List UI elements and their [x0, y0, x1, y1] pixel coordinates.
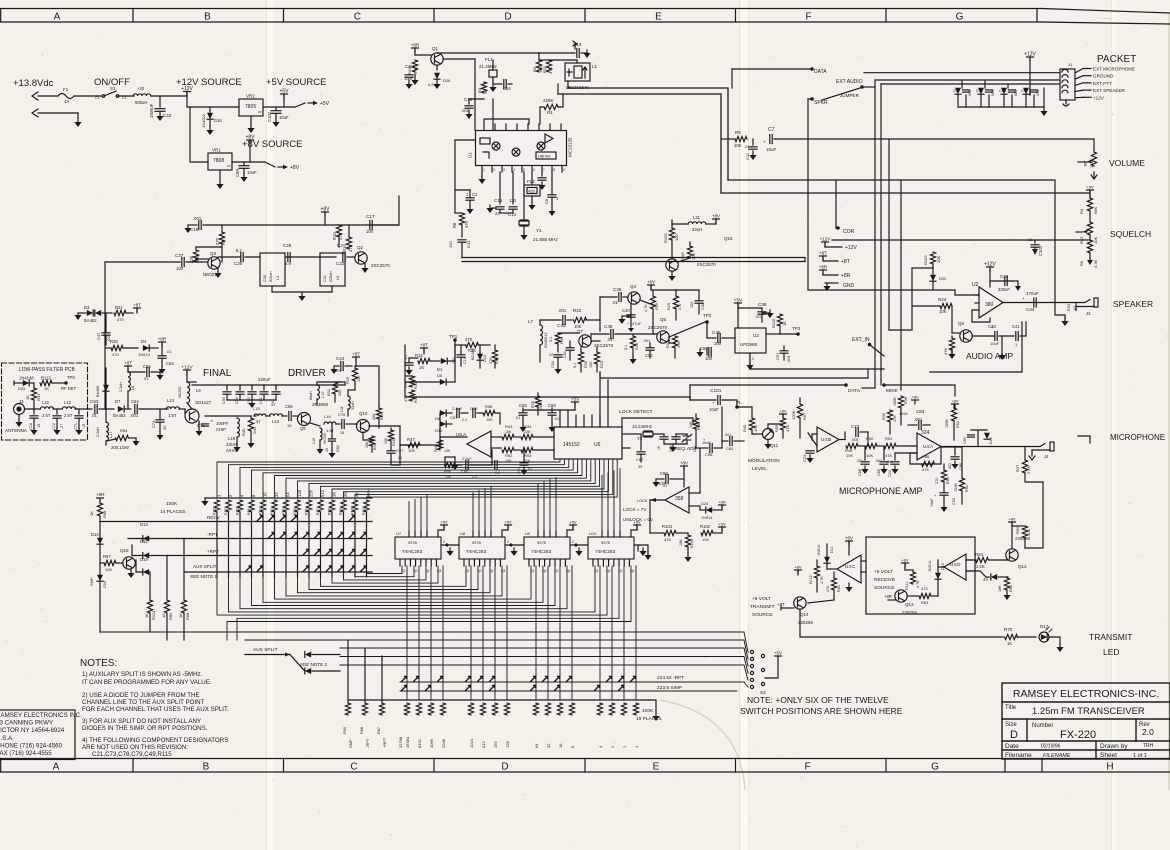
svg-text:D24: D24 [701, 501, 709, 506]
svg-text:128: 128 [297, 489, 302, 497]
svg-text:Filename: Filename [1005, 752, 1032, 759]
svg-text:L10: L10 [321, 392, 325, 398]
capacitor C42 1500uF [159, 96, 161, 107]
svg-text:10K: 10K [384, 437, 388, 444]
svg-text:.01: .01 [612, 300, 618, 305]
svg-text:1.5T: 1.5T [168, 413, 177, 418]
svg-text:128: 128 [505, 741, 510, 748]
inductor L9 [187, 382, 190, 403]
svg-text:9978: 9978 [408, 540, 418, 545]
ext_in switch diagonal [870, 345, 884, 356]
svg-text:.001: .001 [643, 339, 650, 343]
svg-text:VICTOR NY 14564-8924: VICTOR NY 14564-8924 [0, 727, 65, 734]
svg-text:Date: Date [1005, 743, 1019, 750]
svg-text:100: 100 [366, 229, 374, 234]
U1 left step wire [455, 140, 476, 190]
svg-text:R63: R63 [921, 600, 929, 605]
svg-text:R39: R39 [882, 413, 886, 420]
svg-text:C34: C34 [1026, 307, 1035, 312]
svg-text:100K: 100K [166, 501, 178, 507]
svg-text:SWITCH POSITIONS ARE SHOWN HER: SWITCH POSITIONS ARE SHOWN HERE [740, 706, 903, 716]
svg-text:R4: R4 [1079, 208, 1084, 214]
svg-text:F: F [804, 762, 810, 773]
wire Q5 to TP2 [669, 322, 705, 337]
svg-text:LOCK = 7V: LOCK = 7V [623, 507, 647, 512]
resistor R63 470 [919, 593, 931, 598]
svg-text:10K: 10K [679, 539, 683, 546]
svg-text:R5: R5 [735, 130, 741, 135]
svg-text:.01: .01 [143, 376, 149, 381]
audio section box wires [930, 322, 1022, 372]
svg-text:B: B [204, 12, 211, 23]
svg-text:D25: D25 [18, 386, 26, 391]
scan arc mark bottom center [660, 700, 745, 790]
zener D26 6.2V [434, 73, 440, 79]
svg-text:10K: 10K [486, 418, 493, 422]
svg-text:+5V: +5V [440, 520, 448, 525]
wire Q1 collector right [443, 58, 475, 60]
svg-text:R21: R21 [115, 305, 123, 310]
svg-text:.01: .01 [166, 349, 172, 354]
svg-text:LOCK DETECT: LOCK DETECT [619, 409, 653, 415]
switch row lines [100, 631, 737, 633]
svg-text:SQUELCH: SQUELCH [1110, 229, 1151, 239]
svg-text:RECV: RECV [207, 515, 221, 520]
svg-text:EXT SPEAKER: EXT SPEAKER [1093, 88, 1126, 93]
svg-text:6|4: 6|4 [566, 569, 571, 573]
cap C51 C54 at Q7 [566, 347, 574, 349]
svg-text:02/19/96: 02/19/96 [1041, 744, 1061, 750]
svg-text:+8 VOLT: +8 VOLT [874, 569, 893, 575]
svg-text:L16: L16 [324, 414, 331, 419]
svg-text:1.25m FM TRANSCEIVER: 1.25m FM TRANSCEIVER [1032, 706, 1145, 717]
svg-text:Q15: Q15 [120, 548, 129, 553]
IC U7 74HC283 [395, 537, 441, 559]
svg-text:47K: 47K [943, 348, 948, 355]
svg-text:2: 2 [493, 168, 495, 172]
U1 pin wires top [484, 119, 529, 124]
svg-text:9046512: 9046512 [543, 332, 548, 348]
svg-text:145152: 145152 [563, 442, 580, 448]
svg-text:6: 6 [533, 168, 535, 172]
svg-text:2SC2570: 2SC2570 [648, 325, 668, 330]
svg-text:100: 100 [589, 362, 593, 368]
svg-text:2SC2570: 2SC2570 [371, 263, 390, 268]
svg-text:VR1: VR1 [212, 148, 221, 153]
svg-text:10K: 10K [408, 448, 415, 453]
svg-text:2|1: 2|1 [401, 569, 406, 573]
svg-text:C88: C88 [858, 469, 862, 476]
svg-text:R26: R26 [635, 343, 639, 350]
svg-text:2.0: 2.0 [1142, 727, 1154, 737]
svg-text:324: 324 [921, 430, 930, 436]
diode D1 1N914 [441, 358, 447, 364]
svg-text:9978: 9978 [472, 540, 482, 545]
long mid bus y258 [462, 257, 805, 259]
U5B output [650, 499, 665, 501]
svg-text:1N914: 1N914 [701, 516, 712, 520]
svg-text:7: 7 [543, 168, 545, 172]
svg-text:D13: D13 [140, 522, 148, 527]
capacitor C11 .01 [752, 139, 754, 145]
svg-text:C82: C82 [336, 445, 340, 452]
svg-text:EXT_IN: EXT_IN [852, 337, 870, 343]
transistor Q13 228256 [895, 590, 907, 602]
svg-text:15: 15 [37, 424, 41, 428]
transistor Q12 228256 [1006, 549, 1018, 561]
svg-text:TRANSMIT: TRANSMIT [1089, 632, 1132, 642]
filter main line [25, 408, 41, 410]
U1 internal triangle [545, 134, 553, 143]
svg-text:C1: C1 [953, 89, 958, 93]
svg-text:LOCK: LOCK [637, 499, 648, 503]
svg-text:3|2: 3|2 [489, 569, 494, 573]
svg-text:R6: R6 [1079, 260, 1084, 266]
svg-text:BA482: BA482 [84, 318, 97, 323]
svg-text:C22: C22 [336, 261, 345, 266]
svg-text:+RPT: +RPT [382, 737, 387, 748]
svg-text:A: A [53, 762, 60, 773]
svg-text:380: 380 [985, 302, 994, 308]
svg-text:4096: 4096 [429, 738, 434, 748]
svg-text:15: 15 [340, 431, 344, 435]
svg-text:C96: C96 [705, 452, 713, 457]
cap C50 100 [706, 348, 708, 355]
svg-text:6|4: 6|4 [501, 569, 506, 573]
svg-text:470: 470 [826, 586, 830, 592]
IC U9 74HC283 [524, 537, 570, 559]
svg-text:U9: U9 [525, 531, 531, 536]
diode D12 1N914 [935, 573, 941, 579]
bottom bus wires center [600, 372, 868, 378]
wire rail corner up at x399 [374, 196, 399, 225]
svg-text:47uF: 47uF [632, 321, 642, 326]
transistor Q14 228256 [794, 597, 806, 609]
svg-text:358: 358 [675, 496, 684, 502]
connector J1 [1060, 69, 1075, 100]
svg-text:R70: R70 [1004, 627, 1013, 632]
diode on aux split bottom [305, 652, 311, 658]
svg-text:L15: L15 [253, 406, 260, 411]
svg-text:47K: 47K [893, 415, 897, 422]
svg-text:2.2K: 2.2K [976, 564, 985, 569]
svg-text:1) AUXILARY SPLIT IS SHOWN AS: 1) AUXILARY SPLIT IS SHOWN AS -5MHz. [82, 671, 203, 678]
svg-text:C3: C3 [999, 89, 1004, 93]
op amp U4:D [944, 554, 966, 580]
svg-text:1N914: 1N914 [928, 561, 932, 572]
ground at U8 [513, 548, 515, 551]
svg-text:R96: R96 [305, 508, 309, 515]
svg-text:228256: 228256 [902, 610, 918, 615]
svg-text:+8R: +8R [841, 273, 851, 279]
svg-text:U7: U7 [396, 531, 402, 536]
crystal Y1 21.855 MHz [520, 219, 528, 221]
svg-text:+8R: +8R [884, 594, 892, 599]
svg-text:512: 512 [320, 489, 325, 497]
svg-text:C1: C1 [472, 192, 478, 197]
packet bus wires [864, 72, 1060, 74]
svg-text:C11: C11 [745, 152, 750, 160]
svg-text:R55: R55 [444, 470, 451, 474]
svg-text:R59: R59 [774, 424, 779, 432]
svg-text:100: 100 [705, 356, 713, 361]
svg-text:.001: .001 [558, 308, 567, 313]
svg-text:TP3: TP3 [792, 326, 801, 331]
legend GND [825, 282, 838, 284]
svg-text:C31: C31 [323, 275, 327, 282]
svg-text:R32: R32 [327, 389, 331, 396]
svg-text:C74: C74 [151, 420, 156, 428]
svg-text:Q12: Q12 [1018, 564, 1027, 569]
svg-text:500uH: 500uH [135, 100, 147, 105]
packet fanout lines [1075, 69, 1083, 74]
svg-text:.01: .01 [515, 416, 520, 420]
svg-text:D: D [504, 12, 511, 23]
svg-text:R98: R98 [328, 508, 332, 515]
svg-text:2|1: 2|1 [530, 569, 535, 573]
svg-text:Q2: Q2 [357, 245, 364, 250]
svg-text:7805: 7805 [245, 104, 256, 110]
svg-text:5: 5 [523, 168, 525, 172]
svg-text:E: E [655, 12, 662, 23]
svg-text:TP1: TP1 [449, 334, 458, 339]
svg-text:2|1: 2|1 [465, 569, 470, 573]
voltage regulator VR1 7808 [208, 153, 232, 170]
aux split lower rail [99, 631, 101, 633]
svg-text:2N3866: 2N3866 [312, 402, 329, 407]
svg-text:8.2: 8.2 [236, 248, 242, 253]
U6 right pins [622, 433, 630, 435]
wire down to VR1 branch [190, 107, 208, 162]
svg-text:R28: R28 [110, 339, 118, 344]
svg-text:SOURCE: SOURCE [752, 612, 773, 618]
svg-text:8: 8 [553, 168, 555, 172]
diode D27 at U4D [991, 574, 997, 580]
svg-text:EXT MICROPHONE: EXT MICROPHONE [1093, 67, 1135, 72]
svg-text:+8V SOURCE: +8V SOURCE [242, 139, 302, 150]
bottom array 16 resistors [404, 703, 409, 715]
svg-text:SOURCE: SOURCE [874, 585, 895, 591]
bottom array bus [348, 699, 648, 701]
long bus wire upper y88 [568, 88, 728, 180]
svg-text:93 CANNING PKWY: 93 CANNING PKWY [0, 720, 53, 727]
svg-text:C54: C54 [551, 361, 555, 368]
svg-text:R38: R38 [904, 397, 908, 404]
svg-text:7808: 7808 [213, 158, 224, 164]
svg-text:B: B [203, 762, 210, 773]
cap C97 .01 [387, 450, 395, 452]
svg-text:G: G [956, 12, 964, 23]
svg-text:21.4MHz: 21.4MHz [479, 64, 498, 69]
svg-text:U6: U6 [594, 442, 601, 448]
svg-text:C83: C83 [916, 409, 925, 414]
input connector chevrons [32, 92, 38, 117]
svg-text:+13.8Vdc: +13.8Vdc [13, 78, 54, 89]
packet ground [1043, 88, 1045, 107]
svg-text:2048: 2048 [441, 738, 446, 748]
svg-text:100K: 100K [945, 419, 949, 428]
svg-text:47K: 47K [664, 537, 671, 542]
svg-text:+8V: +8V [845, 536, 853, 541]
svg-text:+8V: +8V [779, 409, 787, 414]
low-pass filter dashed box [2, 363, 88, 440]
svg-text:R94: R94 [282, 508, 286, 515]
ground under U5A [454, 462, 456, 465]
svg-text:10uF: 10uF [279, 115, 289, 120]
svg-text:R11: R11 [542, 65, 547, 73]
svg-text:S1: S1 [110, 86, 116, 91]
svg-text:C76: C76 [338, 412, 346, 417]
svg-text:+12V: +12V [845, 245, 857, 251]
svg-text:Drawn by: Drawn by [1100, 743, 1128, 750]
wire to modulation PL [721, 407, 723, 448]
svg-text:S2: S2 [760, 690, 766, 695]
svg-text:R67: R67 [103, 554, 111, 559]
svg-text:47K: 47K [785, 425, 790, 432]
svg-text:100K: 100K [791, 410, 796, 420]
svg-text:C: C [354, 12, 361, 23]
svg-text:C15: C15 [494, 198, 503, 203]
svg-text:CHIP: CHIP [216, 427, 226, 432]
svg-text:32: 32 [546, 743, 551, 748]
carry wire U8 to U9 [505, 544, 523, 546]
svg-text:DIODES IN THE SIMP. OR RPT POS: DIODES IN THE SIMP. OR RPT POSITIONS. [82, 725, 208, 732]
svg-text:2|0: 2|0 [413, 569, 418, 573]
ground under VR1 [219, 170, 221, 180]
svg-text:PL: PL [736, 400, 742, 405]
svg-text:1K: 1K [25, 395, 30, 400]
svg-text:C69: C69 [548, 403, 556, 408]
svg-text:R62: R62 [1009, 585, 1013, 592]
svg-text:C43: C43 [557, 323, 566, 328]
svg-text:C57: C57 [775, 352, 780, 360]
svg-text:DATA: DATA [814, 69, 827, 75]
svg-text:.001: .001 [948, 463, 952, 470]
svg-text:3.3K: 3.3K [1093, 259, 1098, 268]
wire U2 output to speaker [1003, 302, 1085, 304]
svg-text:2.5T: 2.5T [64, 413, 73, 418]
svg-text:C32: C32 [701, 303, 705, 310]
svg-text:R92: R92 [259, 508, 263, 515]
wire VR1 output [232, 161, 265, 163]
svg-text:.001: .001 [856, 459, 863, 463]
inductor L10 86uH at driver [317, 385, 319, 399]
svg-text:47K: 47K [922, 467, 929, 472]
svg-text:FAX (716) 924-4555: FAX (716) 924-4555 [0, 750, 52, 757]
svg-text:5.1: 5.1 [624, 345, 628, 350]
svg-text:10uF: 10uF [930, 498, 934, 507]
cap C82 20 vertical [329, 438, 336, 440]
svg-text:C67: C67 [450, 415, 458, 420]
svg-text:EXT AUDIO: EXT AUDIO [836, 79, 863, 85]
svg-text:C33: C33 [466, 240, 471, 248]
svg-text:PACKET: PACKET [1097, 54, 1136, 65]
svg-text:LEVEL: LEVEL [752, 466, 767, 472]
svg-text:C46: C46 [712, 330, 721, 335]
SPKR vertical wire [808, 99, 955, 290]
ground at U7 [449, 548, 451, 551]
svg-text:L14: L14 [272, 419, 280, 424]
switch contacts S2 [750, 650, 753, 653]
svg-text:D23: D23 [483, 355, 487, 362]
svg-text:R88: R88 [360, 727, 364, 734]
svg-text:Q8: Q8 [300, 426, 306, 431]
svg-text:200: 200 [338, 390, 342, 396]
svg-text:R15: R15 [415, 353, 423, 358]
U5A input resistors R52 R53 lower [491, 447, 501, 449]
svg-text:R20: R20 [667, 303, 671, 310]
svg-text:NOTES:: NOTES: [80, 658, 117, 669]
svg-text:U8: U8 [460, 531, 466, 536]
caps C59 C60 trimmer C81 [660, 436, 668, 438]
svg-text:.001: .001 [968, 90, 972, 97]
svg-text:+8R: +8R [819, 265, 828, 270]
volume feed wire [774, 139, 1094, 152]
svg-text:22K: 22K [524, 430, 531, 434]
svg-text:AUX SPLIT: AUX SPLIT [193, 564, 217, 569]
U6 top pins [559, 410, 561, 427]
svg-text:COR: COR [843, 229, 855, 235]
svg-text:Q3: Q3 [210, 251, 217, 256]
svg-text:100: 100 [357, 376, 361, 382]
svg-text:2.2uH: 2.2uH [119, 382, 123, 392]
wire Q14 emitter bottom rail [800, 609, 1003, 637]
svg-text:R89: R89 [168, 612, 173, 620]
svg-text:ov: ov [227, 164, 231, 168]
ground left of C18 [187, 225, 189, 228]
svg-text:R105: R105 [663, 233, 668, 243]
svg-text:+5V: +5V [1086, 185, 1094, 190]
svg-text:R54: R54 [120, 428, 128, 433]
svg-text:R117: R117 [224, 507, 228, 515]
svg-text:H: H [1106, 762, 1113, 773]
svg-text:+8V: +8V [951, 399, 959, 404]
svg-text:+8V: +8V [794, 565, 802, 570]
svg-text:1K: 1K [419, 365, 424, 370]
svg-text:R55: R55 [946, 477, 950, 484]
svg-text:2.2uF: 2.2uF [452, 406, 463, 411]
svg-text:C93: C93 [952, 498, 956, 505]
svg-text:TP2: TP2 [703, 313, 712, 318]
svg-text:D19: D19 [140, 557, 148, 562]
svg-text:R68: R68 [102, 510, 107, 518]
svg-text:+8R: +8R [411, 43, 420, 48]
svg-text:Q16: Q16 [724, 236, 733, 241]
ground under tuned circuits [271, 286, 273, 292]
bottom array left group R90 R88 R87 [345, 703, 350, 715]
svg-text:74HC283: 74HC283 [402, 549, 423, 555]
svg-text:NE021: NE021 [203, 272, 217, 277]
svg-text:R45: R45 [742, 424, 747, 432]
svg-text:Title: Title [1005, 705, 1017, 711]
svg-text:C44: C44 [336, 356, 345, 361]
svg-text:D: D [1010, 729, 1018, 741]
svg-text:D28: D28 [989, 437, 993, 444]
bus bundle U6 to ladder [217, 459, 560, 498]
wire from Q16 down [671, 220, 673, 224]
svg-text:C19: C19 [463, 357, 467, 364]
inductor L1 box with diode [565, 63, 590, 81]
svg-text:FL1: FL1 [485, 57, 493, 62]
svg-text:21.855 MHz: 21.855 MHz [533, 237, 558, 242]
svg-text:RAMSEY ELECTRONICS INC.: RAMSEY ELECTRONICS INC. [0, 712, 82, 719]
svg-text:Q13: Q13 [905, 602, 914, 607]
ladder top bus [205, 497, 372, 499]
svg-text:2.2uF: 2.2uF [462, 457, 472, 461]
svg-text:74HC283: 74HC283 [531, 549, 552, 555]
svg-text:J2: J2 [1086, 311, 1091, 316]
svg-text:DRIVER: DRIVER [288, 368, 326, 379]
